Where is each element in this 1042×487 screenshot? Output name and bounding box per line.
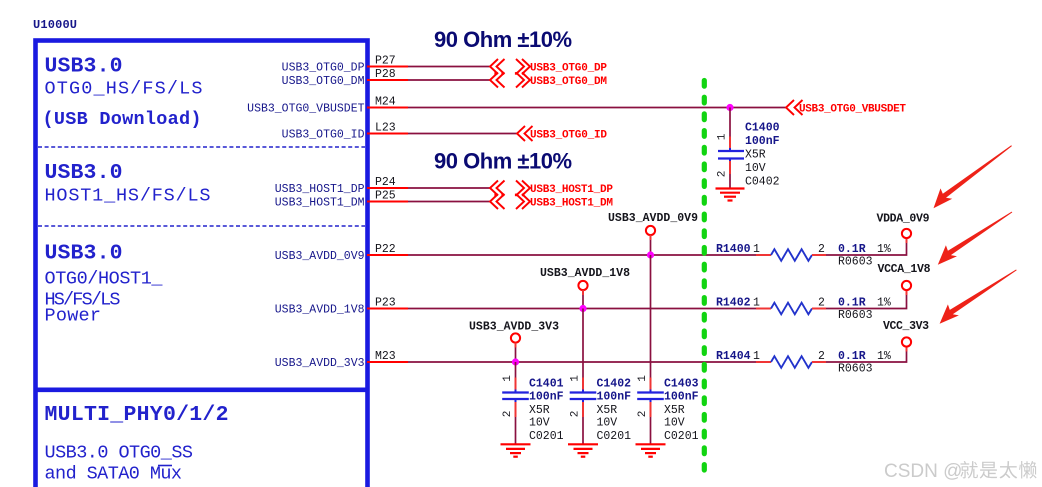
pin name USB3_OTG0_VBUSDET [247,103,364,116]
wire USB3_OTG0_DP [408,66,490,68]
port chevrons << USB3_OTG0_DM [490,73,505,88]
net label USB3_OTG0_ID [530,130,607,142]
svg-text:VDDA_0V9: VDDA_0V9 [877,213,930,226]
svg-text:X5R: X5R [529,404,550,417]
wire R1404 to VCC_3V3 [826,352,907,363]
wire C1402 vertical drop [582,309,584,378]
wire R1400 to VDDA_0V9 [826,243,907,255]
resistor R1402 labels [716,297,891,323]
power symbol circle VDDA_0V9 [902,229,911,238]
svg-text:USB3_OTG0_DM: USB3_OTG0_DM [530,76,607,88]
wire circle to rail3 [515,343,517,362]
svg-text:1%: 1% [877,243,891,256]
pin stub P27 [367,66,408,68]
svg-text:HOST1_HS/FS/LS: HOST1_HS/FS/LS [45,186,211,207]
power pin circle USB3_AVDD_1V8 [578,281,587,290]
ground below C1403 [636,444,666,456]
pin name USB3_OTG0_DM [282,75,365,88]
pin number P27 [375,55,396,68]
svg-text:1%: 1% [877,297,891,310]
pin number P23 [375,297,396,310]
port chevrons << USB3_HOST1_DP [490,181,505,196]
chevron arm junction dots OTG0 pair [494,72,524,75]
port chevrons << USB3_OTG0_ID [517,126,533,141]
IC U1000U refdes label [33,18,77,32]
power symbol circle VCC_3V3 [902,337,911,346]
svg-text:2: 2 [717,171,729,178]
svg-text:USB3_OTG0_ID: USB3_OTG0_ID [530,130,607,142]
voltage domain boundary (green dashed) [702,81,707,471]
svg-text:USB3_HOST1_DP: USB3_HOST1_DP [275,183,365,196]
IC U1000U body outline [36,41,368,487]
power net label VCCA_1V8 [878,263,931,276]
resistor R1404 labels [716,350,891,376]
C1400 value labels [745,122,780,189]
svg-text:USB3_HOST1_DM: USB3_HOST1_DM [530,198,613,210]
svg-text:90 Ohm ±10%: 90 Ohm ±10% [434,149,572,174]
svg-text:2: 2 [570,411,582,418]
wire USB3_OTG0_ID [408,133,517,135]
pin name USB3_AVDD_3V3 [275,357,365,370]
svg-text:USB3_OTG0_DM: USB3_OTG0_DM [282,75,365,88]
label chevrons >> USB3_OTG0_DM [516,73,530,88]
pin number M24 [375,96,396,109]
power symbol circle VCCA_1V8 [902,281,911,290]
port chevrons << USB3_OTG0_VBUSDET [786,100,803,115]
pin stub P24 [367,187,408,189]
power pin stub VCC_3V3 [906,347,908,352]
wire USB3_HOST1_DP [408,187,490,189]
note: 90 Ohm +/-10% (top) [434,27,572,52]
annotation arrow to VDDA_0V9 [934,145,1012,208]
pin name USB3_OTG0_ID [282,129,365,142]
C1402 value labels [597,378,632,444]
svg-text:OTG0_HS/FS/LS: OTG0_HS/FS/LS [45,79,203,100]
label chevrons >> USB3_HOST1_DP [516,181,530,196]
svg-text:10V: 10V [529,417,550,430]
C1401 value labels [529,378,564,444]
capacitor C1403 leads [650,378,652,445]
pin stub M23 [367,361,408,363]
junction dot on VBUSDET at C1400 [726,104,733,111]
junction dot rail3 / C1401 [512,358,519,365]
wire C1400 bottom lead [729,161,731,188]
capacitor C1400 [718,148,744,162]
svg-text:X5R: X5R [597,404,618,417]
pin number P22 [375,243,396,256]
pin stub P28 [367,79,408,81]
port chevrons << USB3_HOST1_DM [490,194,505,209]
wire USB3_HOST1_DM [408,201,490,203]
ground below C1400 [716,189,745,201]
svg-text:MULTI_PHY0/1/2: MULTI_PHY0/1/2 [45,403,229,427]
IC text: MULTI_PHY0/1/2 [45,403,229,427]
svg-text:R1402: R1402 [716,297,751,310]
note: 90 Ohm +/-10% (middle) [434,149,572,174]
svg-text:R0603: R0603 [838,309,873,322]
svg-text:USB3_OTG0_VBUSDET: USB3_OTG0_VBUSDET [247,103,364,116]
power pin stub VCCA_1V8 [906,290,908,295]
C1400 pin number 2 [717,171,729,178]
wire C1403 vertical drop [650,255,652,378]
power pin circle USB3_AVDD_3V3 [511,333,520,342]
C1400 pin number 1 [717,133,729,140]
port chevrons << USB3_OTG0_DP [490,59,505,74]
C1402 pin number 2 [570,411,582,418]
pin name USB3_HOST1_DP [275,183,365,196]
pin number P24 [375,176,396,189]
svg-text:USB3_HOST1_DM: USB3_HOST1_DM [275,197,365,210]
IC section divider (solid) between Power and MULTI_PHY [36,387,368,392]
svg-text:R1400: R1400 [716,243,751,256]
C1403 pin number 2 [637,411,649,418]
wire C1400 top lead [729,108,731,150]
svg-text:USB3_AVDD_3V3: USB3_AVDD_3V3 [275,357,365,370]
capacitor C1402 leads [582,378,584,445]
pin stub M24 [367,107,408,109]
capacitor C1401 leads [515,378,517,445]
svg-text:1: 1 [570,375,582,382]
svg-text:USB3_AVDD_3V3: USB3_AVDD_3V3 [469,321,559,334]
svg-text:100nF: 100nF [745,135,780,148]
resistor R1404 [756,356,826,368]
svg-text:C1403: C1403 [664,378,699,391]
capacitor C1402 [570,390,597,403]
svg-text:R0603: R0603 [838,363,873,376]
annotation arrow to VCCA_1V8 [938,212,1013,265]
net label USB3_OTG0_VBUSDET [799,104,906,116]
power pin circle USB3_AVDD_0V9 [646,226,655,235]
IC text: OTG0/HOST1_ [45,269,164,290]
junction dot rail2 / C1402 [579,305,586,312]
svg-text:Power: Power [45,306,102,327]
svg-text:1: 1 [717,133,729,140]
pin number M23 [375,350,396,363]
C1403 pin number 1 [637,375,649,382]
svg-text:100nF: 100nF [597,391,632,404]
svg-text:USB3.0: USB3.0 [45,55,123,79]
resistor R1400 labels [716,243,891,269]
wire rail USB3_AVDD_3V3 [408,361,756,363]
IC text: and SATA0 Mux [45,464,183,485]
svg-text:USB3_OTG0_ID: USB3_OTG0_ID [282,129,365,142]
svg-text:USB3.0 OTG0_SS: USB3.0 OTG0_SS [45,443,194,464]
label chevrons >> USB3_HOST1_DM [516,194,530,209]
svg-text:(USB Download): (USB Download) [43,109,202,130]
IC text: USB3.0 (HOST1 section title) [45,161,123,185]
svg-text:USB3_HOST1_DP: USB3_HOST1_DP [530,184,613,196]
net label USB3_HOST1_DM [530,198,613,210]
annotation arrow to VCC_3V3 [940,270,1017,324]
wire circle to rail1 [650,235,652,255]
capacitor C1401 [502,390,529,403]
svg-text:R1404: R1404 [716,350,751,363]
pin stub P22 [367,254,408,256]
svg-text:USB3_AVDD_1V8: USB3_AVDD_1V8 [275,304,365,317]
svg-text:0.1R: 0.1R [838,243,866,256]
net label USB3_HOST1_DP [530,184,613,196]
label chevrons >> USB3_OTG0_DP [516,59,530,74]
svg-text:VCC_3V3: VCC_3V3 [883,320,929,333]
svg-text:2: 2 [637,411,649,418]
svg-text:1%: 1% [877,350,891,363]
pin name USB3_HOST1_DM [275,197,365,210]
chevron arm junction dots HOST1 pair [494,194,524,197]
ground below C1401 [501,444,531,456]
C1401 pin number 2 [502,411,514,418]
pin stub P25 [367,201,408,203]
pin name USB3_AVDD_1V8 [275,304,365,317]
resistor R1402 [756,303,826,315]
wire USB3_OTG0_VBUSDET [408,107,786,109]
wire USB3_OTG0_DM [408,79,490,81]
pin number P25 [375,190,396,203]
svg-text:C0201: C0201 [664,430,699,443]
svg-text:U1000U: U1000U [33,18,77,32]
floating net label USB3_AVDD_3V3 [469,321,559,334]
svg-text:C0201: C0201 [597,430,632,443]
svg-text:1: 1 [637,375,649,382]
wire circle to rail2 [582,290,584,308]
wire rail USB3_AVDD_1V8 [408,308,756,310]
resistor R1400 [756,249,826,261]
C1401 pin number 1 [502,375,514,382]
pin number L23 [375,122,396,135]
IC text: USB3.0 (power section title) [45,242,123,266]
pin name USB3_AVDD_0V9 [275,250,365,263]
svg-text:100nF: 100nF [664,391,699,404]
IC section divider (dashed) below OTG0 block [38,146,365,148]
capacitor C1403 [637,390,664,403]
svg-text:X5R: X5R [745,149,766,162]
svg-text:OTG0/HOST1_: OTG0/HOST1_ [45,269,164,290]
svg-text:USB3_AVDD_0V9: USB3_AVDD_0V9 [275,250,365,263]
IC text: HOST1_HS/FS/LS [45,186,211,207]
svg-text:C1402: C1402 [597,378,632,391]
svg-text:C0201: C0201 [529,430,564,443]
IC text: HS/FS/LS [45,290,121,311]
watermark CSDN [884,461,1037,482]
IC section divider (dashed) below HOST1 block [38,225,365,227]
svg-text:1: 1 [502,375,514,382]
svg-text:C0402: C0402 [745,176,780,189]
C1402 pin number 1 [570,375,582,382]
svg-text:C1401: C1401 [529,378,564,391]
svg-text:10V: 10V [597,417,618,430]
pin stub L23 [367,133,408,135]
floating net label USB3_AVDD_0V9 [608,212,698,225]
svg-text:USB3_AVDD_1V8: USB3_AVDD_1V8 [540,267,630,280]
svg-text:10V: 10V [664,417,685,430]
pin number P28 [375,68,396,81]
ground below C1402 [568,444,598,456]
wire rail USB3_AVDD_0V9 [408,254,756,256]
svg-text:USB3.0: USB3.0 [45,242,123,266]
svg-text:VCCA_1V8: VCCA_1V8 [878,263,931,276]
power pin stub VDDA_0V9 [906,238,908,243]
IC text: (USB Download) [43,109,202,130]
svg-text:USB3_OTG0_VBUSDET: USB3_OTG0_VBUSDET [799,104,906,116]
svg-text:90 Ohm ±10%: 90 Ohm ±10% [434,27,572,52]
svg-text:USB3.0: USB3.0 [45,161,123,185]
pin name USB3_OTG0_DP [282,62,365,75]
svg-text:0.1R: 0.1R [838,350,866,363]
svg-text:2: 2 [502,411,514,418]
svg-text:and SATA0 Mux: and SATA0 Mux [45,464,183,485]
IC text: Power [45,306,102,327]
svg-text:100nF: 100nF [529,391,564,404]
floating net label USB3_AVDD_1V8 [540,267,630,280]
power net label VCC_3V3 [883,320,929,333]
power net label VDDA_0V9 [877,213,930,226]
svg-text:R0603: R0603 [838,256,873,269]
junction dot rail1 / C1403 [647,251,654,258]
svg-text:USB3_OTG0_DP: USB3_OTG0_DP [282,62,365,75]
C1403 value labels [664,378,699,444]
wire C1401 vertical drop [515,362,517,378]
pin stub P23 [367,308,408,310]
svg-text:USB3_OTG0_DP: USB3_OTG0_DP [530,63,607,75]
IC text: USB3.0 (OTG0 section title) [45,55,123,79]
svg-text:0.1R: 0.1R [838,297,866,310]
svg-text:USB3_AVDD_0V9: USB3_AVDD_0V9 [608,212,698,225]
svg-text:10V: 10V [745,162,766,175]
svg-text:X5R: X5R [664,404,685,417]
negation overbar on Mux [158,465,172,467]
IC text: USB3.0 OTG0_SS [45,443,194,464]
svg-text:CSDN @: CSDN @ [884,461,962,482]
svg-text:C1400: C1400 [745,122,780,135]
net label USB3_OTG0_DP [530,63,607,75]
IC text: OTG0_HS/FS/LS [45,79,203,100]
net label USB3_OTG0_DM [530,76,607,88]
wire R1402 to VCCA_1V8 [826,295,907,309]
